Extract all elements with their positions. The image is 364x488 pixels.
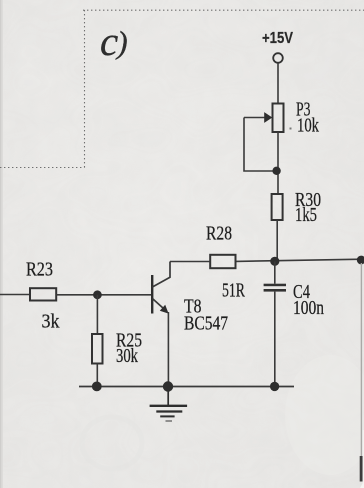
wire collector corner to R28 [170,261,210,263]
wire C4 bottom to ground rail [274,292,276,387]
+15V supply terminal [273,53,283,63]
value label 1k5 [295,204,317,226]
svg-text:100n: 100n [293,297,324,319]
wire emitter down to ground rail [167,312,169,387]
dashed box top horizontal border [83,9,364,11]
wire input to R23 [0,294,30,296]
wire R28 to right edge node [236,259,363,261]
dashed box left vertical border [84,10,86,168]
svg-text:+15V: +15V [262,30,293,47]
value label 100n [293,297,324,319]
wire P3 wiper feedback to bottom node [244,118,276,172]
label c) [100,18,128,64]
label R23 [26,258,53,280]
ground symbol [150,391,188,421]
svg-text:51R: 51R [222,280,245,302]
resistor R25 body [92,334,103,364]
wire R25 to ground rail [96,364,98,387]
potentiometer P3 wiper arrow [244,112,272,123]
junction at right border [357,256,364,265]
svg-text:c: c [100,18,118,64]
resistor R30 body [272,194,283,220]
label BC547 [184,313,228,335]
label T8 [184,295,202,317]
junction C4 at rail [270,382,279,391]
right border line [360,263,363,482]
junction emitter at rail [163,381,173,391]
label C4 [293,281,310,303]
svg-text:BC547: BC547 [184,313,228,335]
svg-text:): ) [115,24,128,60]
transistor T8 emitter with arrow [152,299,168,314]
paper edge bottom right [360,430,364,488]
junction base node [93,290,102,299]
wire R23 to base [56,294,151,296]
value label 30k [116,345,139,367]
wire base node down to R25 [96,295,98,334]
capacitor C4 plates [264,284,286,292]
label R28 [206,222,232,244]
wire P3 bottom to node [277,132,279,195]
value label P3 [296,99,311,121]
potentiometer P3 body [273,104,284,133]
svg-text:30k: 30k [116,345,139,367]
resistor R23 body [30,288,56,300]
ground rail [79,386,294,388]
label R30 [295,189,321,211]
svg-text:1k5: 1k5 [295,204,317,226]
value label 51R [222,280,245,302]
value label 3k [42,311,61,333]
wire terminal to P3 top [277,63,279,104]
wire R30 bottom to main node [276,220,278,262]
dashed box lower horizontal border [0,167,85,169]
net +15V label [262,30,293,47]
capacitor C4 wire from node [274,262,276,284]
svg-text:R23: R23 [26,258,53,280]
svg-text:R28: R28 [206,222,232,244]
label R25 [116,329,142,351]
value label 10k [290,114,320,136]
resistor R28 body [210,255,235,268]
junction R25 at rail [92,382,102,392]
junction main node [270,257,279,266]
svg-text:3k: 3k [42,311,61,333]
junction P3 bottom [272,167,280,175]
transistor T8 base bar [151,275,153,314]
transistor T8 collector [152,262,170,288]
svg-text:10k: 10k [297,114,320,136]
